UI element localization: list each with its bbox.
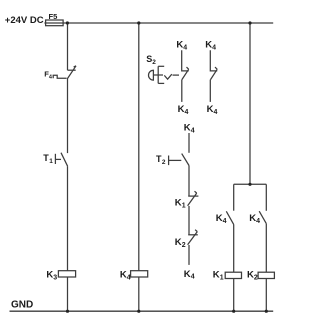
contact T2 (timer NO contact) [169,154,189,166]
svg-text:4: 4 [223,218,227,225]
wire K4 contact to coil K1 [233,224,235,272]
svg-text:1: 1 [49,158,53,165]
wire rail2: coil K4 to GND [138,277,140,311]
svg-text:2: 2 [254,274,258,281]
svg-text:4: 4 [256,218,260,225]
wire K4 contact to coil K2 [265,224,267,273]
pushbutton S2 (latching actuator) [149,66,179,83]
wire middle branch: K4 node to T2 [188,133,190,153]
node: tee junction [248,183,251,186]
fuse F5 [46,20,64,26]
wire rail2: supply to coil K4 [138,23,140,271]
svg-text:4: 4 [127,274,131,281]
svg-text:4: 4 [191,274,195,281]
node: rail2 junction [137,21,140,24]
svg-text:1: 1 [220,274,224,281]
svg-text:3: 3 [53,274,57,281]
node: right feeder junction [248,21,251,24]
contact F4 (thermal overload NC contact) [53,66,76,79]
node: rail2 GND junction [137,310,140,313]
coil K4 [131,271,148,277]
wire coil K1 to GND [233,279,235,312]
coil K2 [258,272,274,278]
svg-text:2: 2 [162,159,166,166]
wire right feeder from supply [249,23,251,184]
wire rail1: F4 to T1 [67,79,69,153]
svg-text:4: 4 [49,75,53,81]
wire rail1: T1 to coil K3 [67,166,69,271]
wire tee bar [234,183,267,185]
contact K4 (upper-right) [210,50,217,102]
node: fuse to rail1 junction [66,21,69,24]
svg-text:4: 4 [214,109,218,116]
contact K4 (left drop, NO) [226,211,233,224]
wire rail1: coil K3 to GND [67,277,69,311]
contact K4 (right drop, NO) [259,211,266,223]
+24V DC rail (top supply line) [44,22,273,24]
svg-text:4: 4 [185,109,189,116]
svg-text:2: 2 [152,59,156,66]
wire middle branch: T2 to K1 [188,166,190,197]
coil K3 [58,271,75,277]
svg-text:GND: GND [11,300,33,311]
svg-text:+24V DC: +24V DC [5,15,44,26]
node: coil K1 GND junction [232,310,235,313]
coil K1 [225,272,241,278]
svg-text:F5: F5 [49,12,59,21]
wire rail1 top: node to F4 [67,23,69,70]
wire coil K2 to GND [265,279,267,312]
contact K2 (NC) [188,230,198,245]
wire left drop to K4 contact [233,184,235,210]
wire middle branch: K2 to K4 node [188,245,190,265]
svg-text:4: 4 [212,44,216,51]
svg-text:2: 2 [182,242,186,249]
svg-text:4: 4 [183,44,187,51]
GND rail (bottom line) [10,310,274,312]
contact K1 (NC) [188,191,199,206]
node: rail1 GND junction [66,310,69,313]
contact K4 (upper-left, actuated by S2) [182,50,189,102]
svg-text:4: 4 [191,127,195,134]
node: coil K2 GND junction [265,310,268,313]
wire middle branch: K1 to K2 [188,206,190,235]
svg-text:1: 1 [182,203,186,210]
contact T1 (timer NO contact) [55,153,67,167]
wire right drop to K4 contact [265,184,267,211]
